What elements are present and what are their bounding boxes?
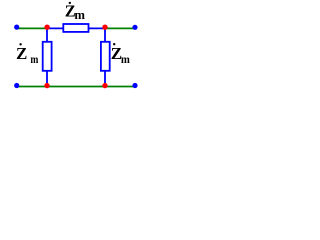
impedance Zm left shunt (vertical box) xyxy=(43,42,52,71)
impedance Zm series (top horizontal box) xyxy=(63,24,88,32)
label Zm series: overdot xyxy=(69,2,71,4)
node junction top-left (red dot) xyxy=(44,25,49,30)
node junction top-right (red dot) xyxy=(102,25,107,30)
wire lead right shunt box down to bottom-right junction (blue) xyxy=(104,71,106,87)
wire lead series box to right-junction (blue) xyxy=(89,27,106,29)
terminal top-left (blue dot) xyxy=(14,25,19,30)
wire lead left-junction to series box (blue) xyxy=(47,27,63,29)
wire top-right rail (green) xyxy=(105,27,134,29)
node junction bottom-left (red dot) xyxy=(44,83,49,88)
terminal bottom-left (blue dot) xyxy=(14,83,19,88)
label Zm right shunt: overdot xyxy=(113,43,115,45)
terminal top-right (blue dot) xyxy=(132,25,137,30)
wire bottom rail (green) xyxy=(17,86,134,88)
wire lead left shunt box down to bottom-left junction (blue) xyxy=(46,71,48,87)
wire lead right-junction down to right shunt box (blue) xyxy=(104,28,106,41)
wire top-left rail (green) xyxy=(17,27,47,29)
wire lead left-junction down to left shunt box (blue) xyxy=(46,28,48,41)
label Zm left shunt: overdot xyxy=(19,43,21,45)
node junction bottom-right (red dot) xyxy=(102,83,107,88)
terminal bottom-right (blue dot) xyxy=(132,83,137,88)
svg-text:Zm: Zm xyxy=(111,44,130,66)
impedance Zm right shunt (vertical box) xyxy=(101,42,110,71)
svg-text:Zm: Zm xyxy=(16,44,39,66)
svg-text:Zm: Zm xyxy=(65,1,86,22)
